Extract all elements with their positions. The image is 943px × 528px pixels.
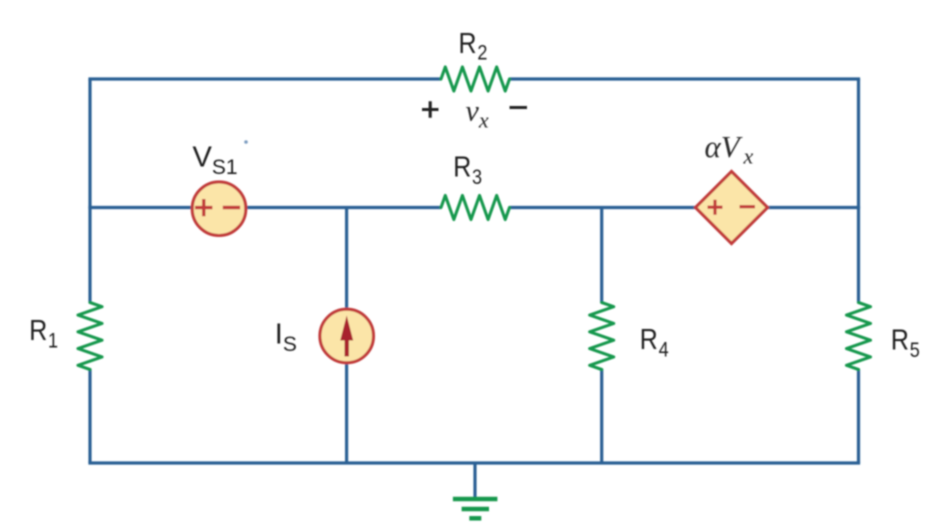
- wire: mid row, diamond to right rail: [766, 206, 860, 209]
- wire: bottom rail y=463: [88, 461, 860, 464]
- svg-text:αV: αV: [705, 129, 743, 164]
- diamond minus sign: [740, 205, 756, 208]
- wire: left rail upper, x=90 y 79..302.5: [88, 79, 91, 303]
- VS1 minus sign: [223, 206, 240, 209]
- svg-text:R1: R1: [29, 314, 58, 353]
- wire: right rail upper, x=858.5 y 79..302.5: [857, 79, 860, 303]
- wire: IS branch vertical x=346.6, y 207.5..463: [345, 206, 348, 463]
- resistor R1 (zigzag on left rail): [78, 303, 102, 370]
- wire: R4 branch upper, x=601.7 y 207.5..302.5: [600, 206, 603, 303]
- ground symbol: [453, 497, 498, 502]
- speck artifact above VS1: [244, 140, 248, 144]
- label R3: [453, 151, 482, 190]
- svg-text:R5: R5: [891, 324, 920, 363]
- wire: R4 branch lower, x=601.7 y 369.5..463: [600, 370, 603, 464]
- resistor R5 (zigzag on right rail): [847, 303, 871, 370]
- wire: right rail lower, x=858.5 y 369.5..463: [857, 370, 860, 464]
- IS arrow: [345, 338, 349, 357]
- wire: mid row, R3 to diamond: [510, 206, 698, 209]
- label R2: [459, 27, 488, 65]
- dependent source alphaVx (diamond): [696, 172, 768, 244]
- current source IS (circle): [320, 309, 374, 363]
- plus sign of vx: [422, 101, 439, 117]
- svg-text:R4: R4: [640, 323, 669, 362]
- resistor R4 (zigzag): [590, 303, 614, 370]
- svg-text:R3: R3: [453, 151, 482, 190]
- minus sign of vx: [510, 106, 528, 109]
- svg-text:IS: IS: [275, 319, 297, 357]
- label R5: [891, 324, 920, 363]
- wire: top horizontal left of R2: [88, 77, 441, 80]
- voltage source VS1 (circle): [192, 182, 246, 236]
- resistor R3 (zigzag on mid wire): [441, 196, 510, 220]
- wire: top horizontal right of R2: [510, 77, 861, 80]
- wire: mid row, left rail to VS1: [88, 206, 193, 209]
- resistor R2 (zigzag on top wire): [441, 67, 510, 91]
- diamond plus sign: [708, 200, 723, 215]
- wire: ground stub: [473, 463, 476, 498]
- label R1: [29, 314, 58, 353]
- svg-text:vx: vx: [466, 95, 489, 133]
- label R4: [640, 323, 669, 362]
- svg-text:x: x: [743, 144, 754, 169]
- wire: left rail lower, x=90 y 369.5..463: [88, 370, 91, 464]
- wire: mid row, VS1 to R3: [246, 206, 441, 209]
- VS1 plus sign: [195, 199, 212, 216]
- svg-text:VS1: VS1: [193, 142, 238, 180]
- svg-text:R2: R2: [459, 27, 488, 65]
